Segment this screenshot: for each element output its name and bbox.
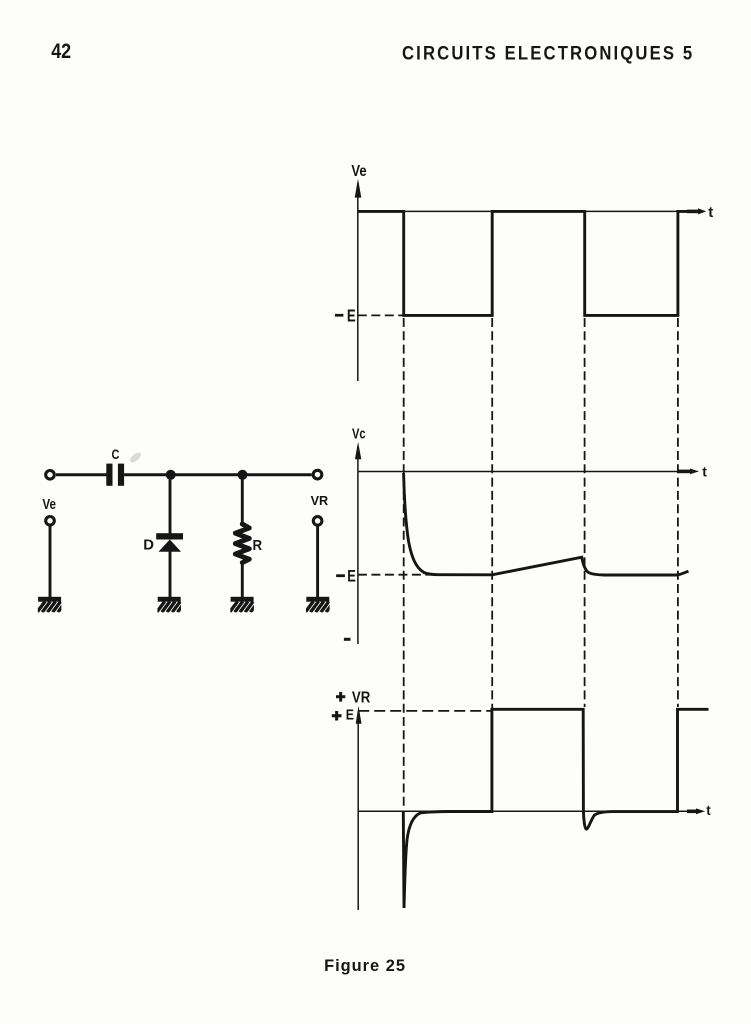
wire Ve to ground: [49, 526, 52, 597]
svg-text:VR: VR: [352, 690, 371, 707]
axis t plot2: [358, 471, 679, 473]
ground under Ve: [37, 597, 66, 612]
wire input to capacitor: [56, 473, 107, 476]
dashed timing line t3: [584, 318, 586, 707]
axis t plot3: [358, 810, 688, 812]
node A junction dot: [166, 470, 176, 480]
terminal input top-left: [46, 471, 55, 480]
terminal output top-right: [313, 470, 322, 479]
arrow VR axis: [356, 706, 362, 724]
svg-text:Figure 25: Figure 25: [324, 957, 406, 975]
label -E plot1: [335, 305, 356, 325]
wire node B to output terminal: [243, 473, 312, 476]
svg-text:Ve: Ve: [42, 497, 56, 513]
terminal VR: [313, 517, 322, 526]
wire diode to ground: [169, 551, 172, 597]
label +E plot3: [332, 708, 354, 724]
ground under resistor: [230, 597, 259, 612]
smudge artifact: [128, 451, 142, 464]
ground under VR: [305, 597, 334, 612]
wire capacitor to node A: [124, 473, 171, 476]
wire node B to resistor: [241, 475, 244, 526]
svg-text:E: E: [347, 305, 356, 325]
ground under diode: [157, 597, 186, 612]
wire VR to ground: [316, 526, 319, 597]
svg-text:E: E: [346, 708, 354, 724]
svg-text:C: C: [112, 446, 120, 462]
wire node A to diode: [169, 475, 172, 534]
axis Ve vertical: [357, 183, 359, 381]
dashed timing line t4: [677, 318, 679, 707]
svg-text:Ve: Ve: [351, 163, 367, 180]
waveform VR curve: [403, 709, 708, 908]
svg-text:42: 42: [51, 40, 71, 63]
diode D: [156, 533, 183, 552]
dashed timing line t2: [491, 318, 493, 708]
arrow Ve axis: [355, 179, 362, 198]
capacitor C: [106, 464, 124, 486]
axis t plot1: [358, 210, 689, 212]
dashed -E level plot2: [358, 574, 432, 576]
node B junction dot: [238, 470, 248, 480]
svg-text:t: t: [708, 204, 713, 221]
wire node A to node B: [171, 473, 243, 476]
waveform Vc curve: [404, 473, 689, 575]
resistor R coil: [235, 524, 249, 563]
svg-text:t: t: [706, 803, 711, 818]
svg-text:t: t: [702, 463, 707, 479]
wire resistor to ground: [241, 561, 244, 597]
label -E plot2: [336, 566, 356, 585]
svg-text:CIRCUITS ELECTRONIQUES 5: CIRCUITS ELECTRONIQUES 5: [402, 42, 694, 64]
svg-text:E: E: [347, 566, 356, 585]
svg-text:Vc: Vc: [352, 427, 366, 443]
terminal Ve: [46, 517, 55, 526]
axis VR vertical: [357, 716, 359, 910]
arrow t plot2: [677, 469, 699, 475]
axis Vc vertical: [357, 446, 359, 644]
dashed -E level plot1: [358, 314, 403, 316]
label +VR plot3: [336, 690, 371, 707]
tick minus plot2: [344, 638, 351, 641]
arrow t plot1: [687, 208, 706, 214]
svg-text:R: R: [253, 538, 263, 554]
dashed timing line t1: [403, 318, 405, 808]
arrow Vc axis: [355, 442, 361, 459]
waveform Ve square wave: [358, 211, 688, 315]
svg-text:VR: VR: [311, 493, 329, 508]
dashed +E level plot3: [358, 710, 491, 712]
svg-text:D: D: [143, 536, 154, 553]
arrow t plot3: [687, 808, 705, 814]
